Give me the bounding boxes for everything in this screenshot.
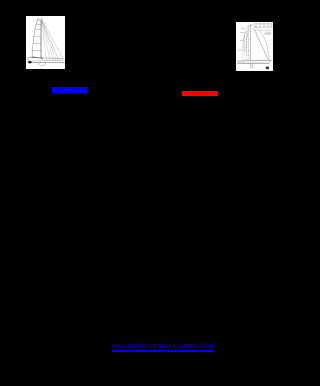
deck line: [28, 57, 63, 60]
hull deck bar: [238, 60, 272, 62]
boom: [32, 57, 43, 59]
main leech: [32, 18, 38, 57]
sail grid continues to foot: [242, 51, 244, 60]
logo dark block: [266, 67, 269, 70]
hull side: [28, 58, 63, 62]
sail seams verticals: [243, 34, 245, 51]
waterline: [28, 61, 66, 63]
mast: [250, 24, 252, 61]
mainsail outline: [246, 24, 250, 51]
red label right: [182, 91, 218, 96]
table block top right: [254, 23, 272, 28]
diagonal stay: [255, 29, 269, 61]
right annotation: [265, 31, 272, 33]
jib / forestay lines: [41, 18, 46, 60]
backstay big arc: [251, 25, 269, 61]
keel: [251, 64, 253, 68]
left sailboat image (sailplan side view): [26, 16, 65, 69]
battens: [37, 20, 41, 22]
right sailboat image (annotated sail diagram): [236, 22, 273, 71]
blue label left: [52, 87, 87, 93]
bottom blue underlined link: [112, 343, 213, 352]
sail seams horizontals: [243, 27, 251, 60]
left annotations: [241, 28, 245, 30]
bow dark blob: [28, 61, 31, 63]
mast: [38, 18, 41, 58]
keel bump: [39, 62, 47, 65]
